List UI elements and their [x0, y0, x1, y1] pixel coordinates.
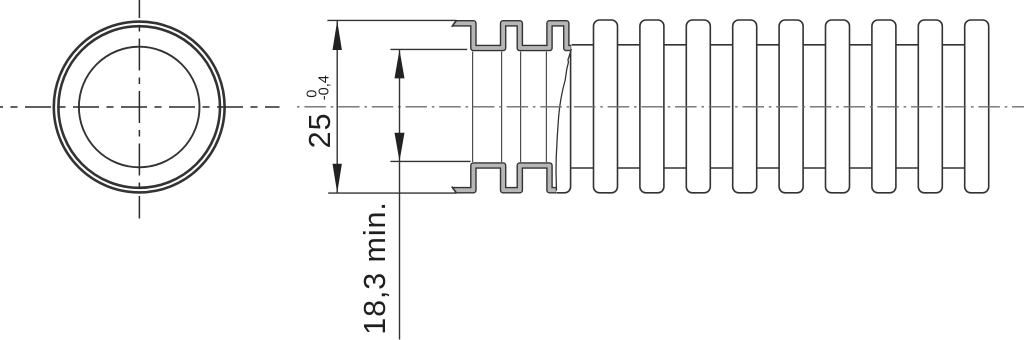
rib 6 [826, 20, 850, 193]
dim 18.3 extension line bottom [390, 160, 470, 162]
svg-text:-0,4: -0,4 [316, 75, 332, 100]
dim 18.3 arrow up [395, 50, 405, 79]
rib 4 [733, 20, 757, 193]
tube axis centerline [297, 106, 1024, 108]
dim 25 extension line bottom [328, 192, 456, 194]
end view vertical centerline [138, 0, 140, 219]
rib 9 [965, 20, 989, 193]
external view ribs (rounded) [547, 20, 989, 193]
dim 18.3 dimension line [399, 50, 401, 340]
rib 3 [686, 20, 710, 193]
rib partial (behind section break) [547, 20, 571, 193]
svg-text:18,3 min.: 18,3 min. [358, 201, 392, 335]
interior corrugation line 2 [501, 52, 503, 162]
section bottom leading chamfer [451, 187, 457, 194]
rib 8 [918, 20, 942, 193]
end view outer circle inner wall [58, 26, 220, 188]
rib 2 [640, 20, 664, 193]
end view horizontal centerline [0, 106, 280, 108]
dim 25 extension line top [327, 19, 456, 21]
dim 25 dimension line [336, 21, 338, 193]
rib 5 [779, 20, 803, 193]
external view trough silhouette bottom line [569, 167, 966, 169]
dim 18.3 arrow down [395, 133, 405, 161]
dim 18.3 extension line top [390, 48, 467, 50]
interior corrugation line 3 [520, 52, 522, 162]
rib 1 [594, 20, 618, 193]
section top leading chamfer [451, 19, 457, 26]
break line [556, 49, 571, 191]
interior corrugation line 1 [472, 52, 474, 162]
section mask (white area left of break line) [436, 12, 573, 198]
section bottom wall band [452, 166, 556, 191]
svg-text:25: 25 [303, 112, 337, 148]
interior corrugation line 4 [545, 52, 547, 162]
section top wall band [452, 23, 571, 48]
dim 25 arrow up [333, 21, 342, 50]
external view trough silhouette top line [571, 44, 966, 46]
dim 25 arrow down [333, 164, 342, 193]
rib 7 [872, 20, 896, 193]
end view outer circle [54, 22, 225, 193]
end view inner circle [79, 47, 200, 168]
